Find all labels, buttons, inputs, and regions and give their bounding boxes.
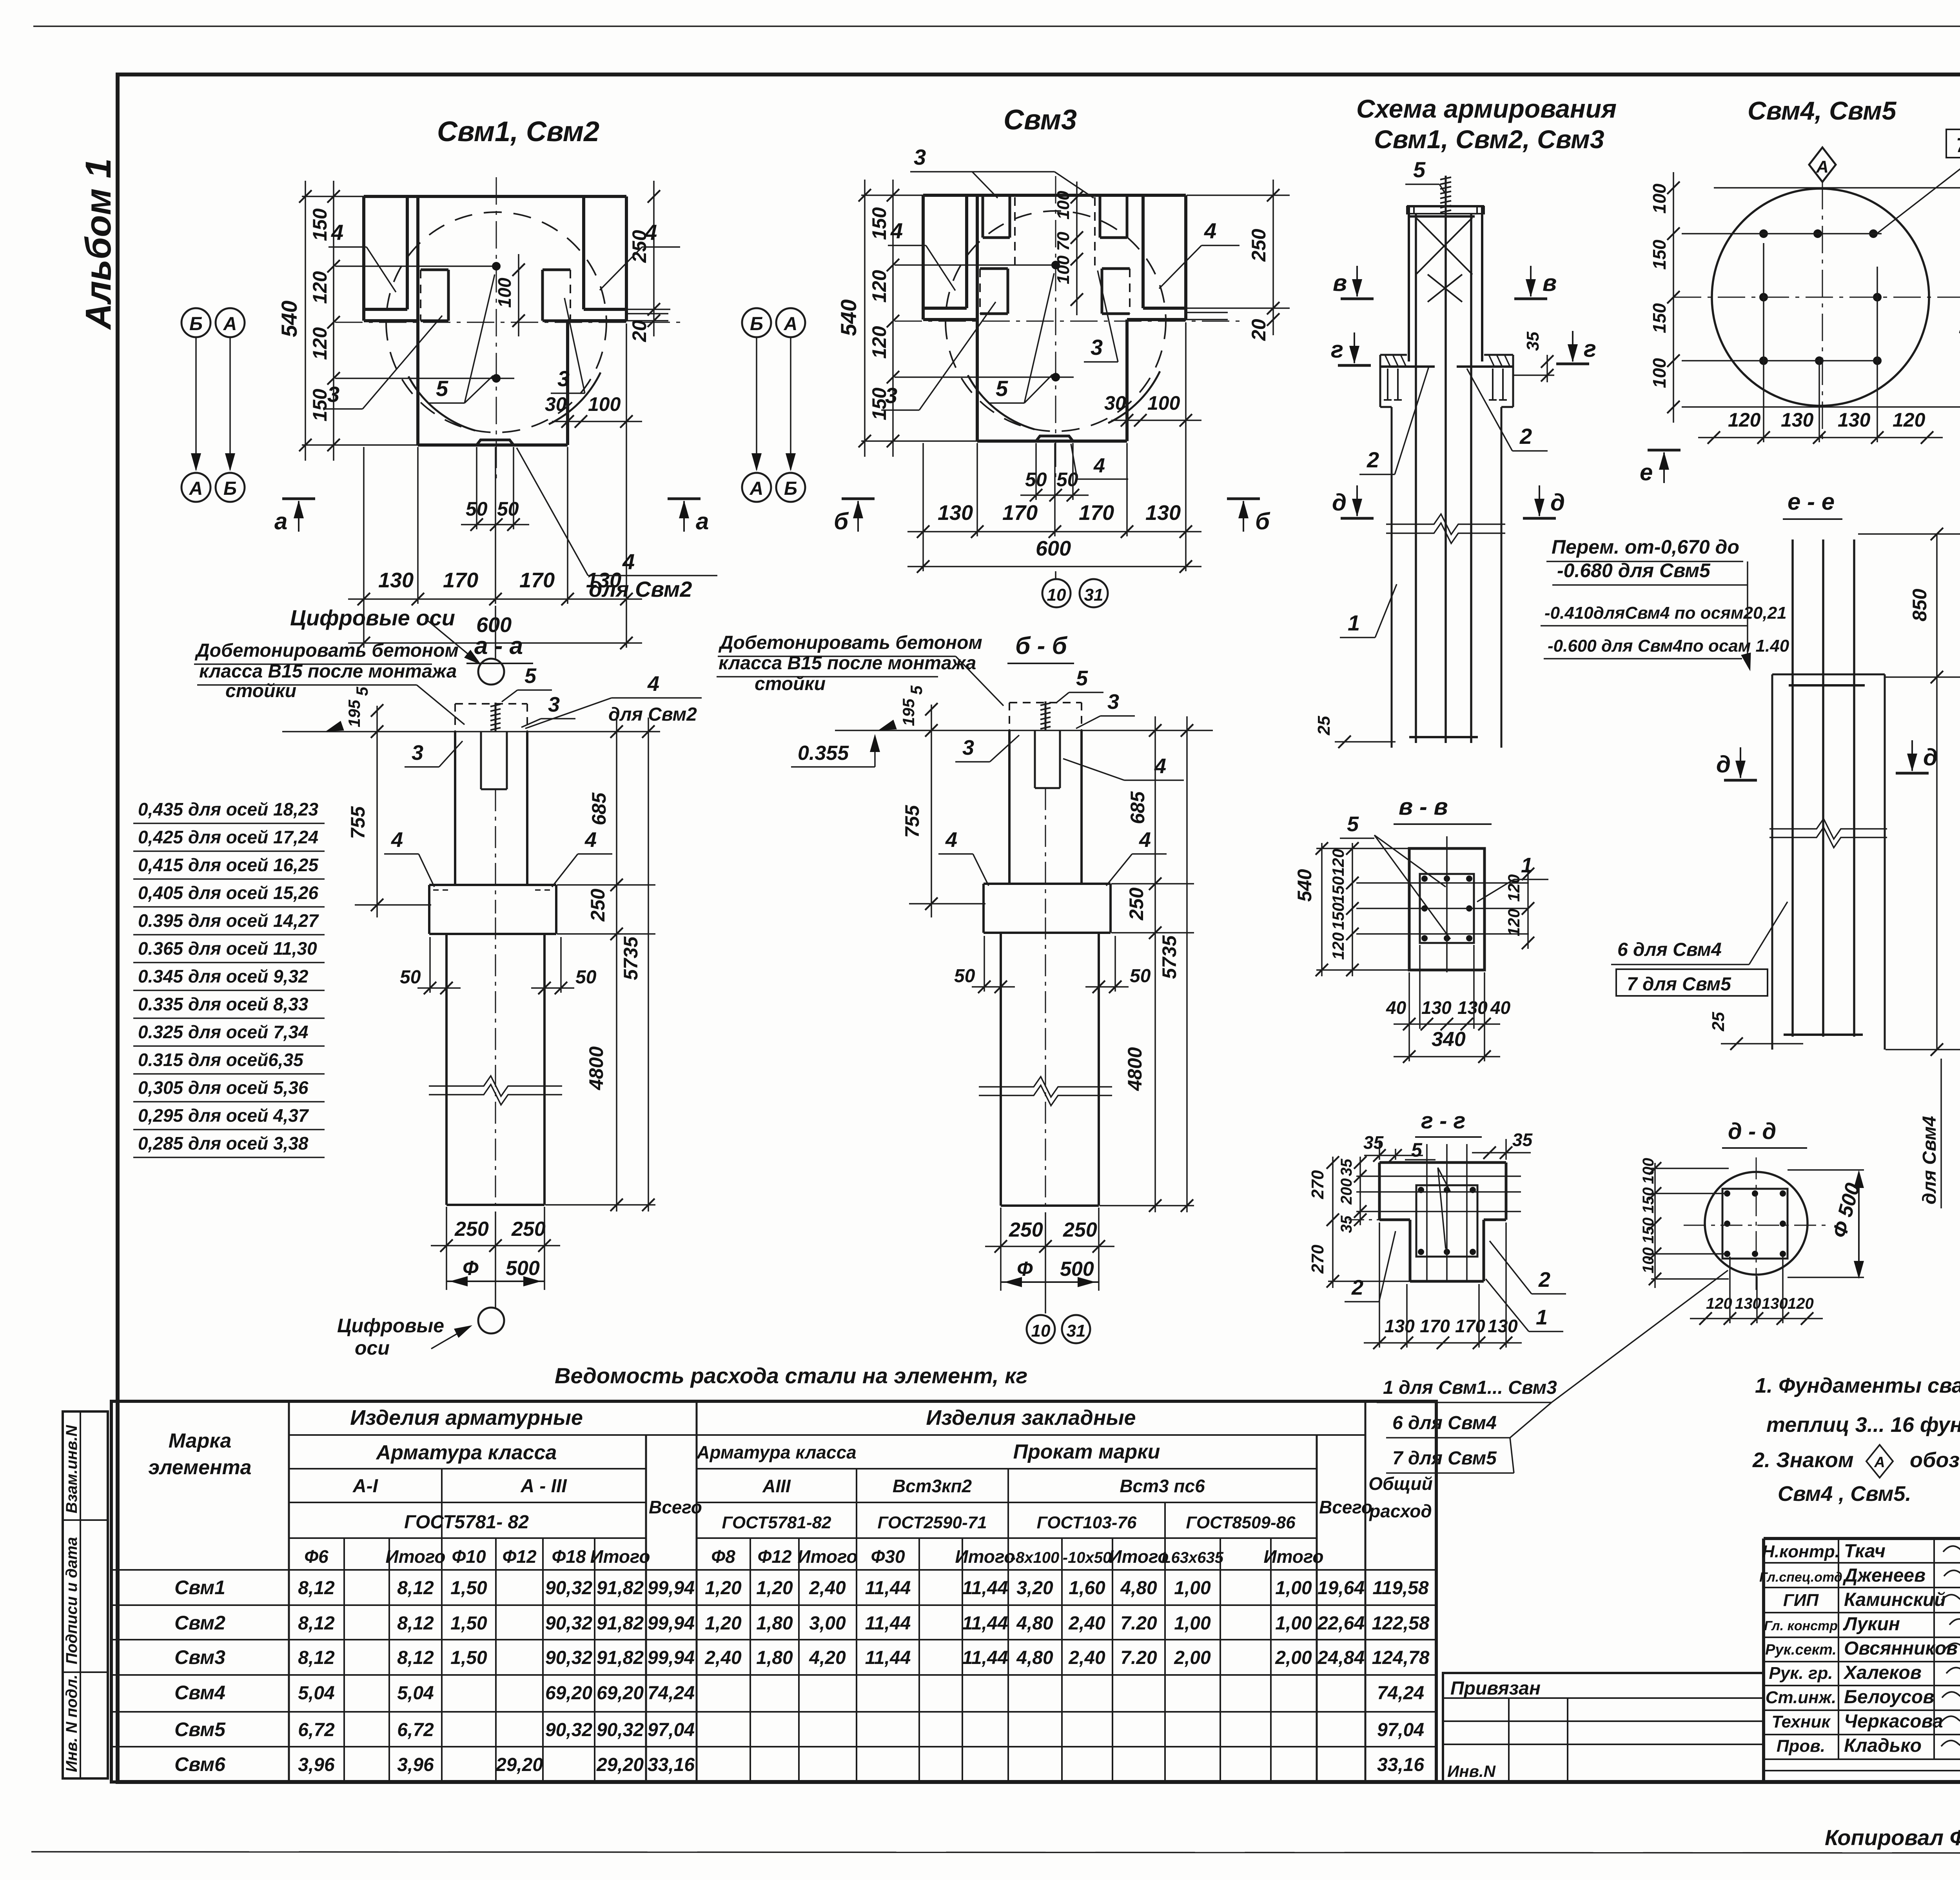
left margin stamp column: [63, 1411, 108, 1778]
plan2 hidden edges dashed: [1014, 197, 1016, 266]
svg-text:обозначена ориентация свайны: обозначена ориентация свайных фундаменто…: [1910, 1448, 1960, 1472]
gg stirrup dots: [1418, 1187, 1424, 1193]
svg-text:1,60: 1,60: [1069, 1578, 1105, 1598]
svg-text:ГОСТ5781- 82: ГОСТ5781- 82: [404, 1512, 529, 1533]
svg-text:Ф: Ф: [1017, 1258, 1033, 1281]
aa dim 50 left: [417, 987, 461, 989]
plan1 dim 50 50: [461, 524, 529, 525]
svg-text:г: г: [1331, 336, 1343, 363]
dd left chain 100 150 150 100: [1654, 1163, 1656, 1288]
svg-text:340: 340: [1432, 1028, 1466, 1051]
svg-text:1,80: 1,80: [756, 1647, 793, 1668]
svg-text:Ф6: Ф6: [304, 1546, 328, 1567]
plan2 axis circles bottom: [742, 473, 771, 502]
svg-text:-0.410дляСвм4 по осям20,21: -0.410дляСвм4 по осям20,21: [1544, 603, 1787, 623]
plan2 pile circle dashed: [946, 211, 1166, 431]
svg-text:Ф8: Ф8: [711, 1546, 735, 1567]
bb axis circles 10 31: [1045, 1212, 1046, 1313]
svg-text:4,20: 4,20: [809, 1647, 846, 1668]
vv right chain 120 120: [1527, 868, 1529, 949]
svg-text:Свм1, Свм2, Свм3: Свм1, Свм2, Свм3: [1374, 125, 1604, 154]
svg-text:7.20: 7.20: [1120, 1613, 1157, 1634]
svg-text:б - б: б - б: [1015, 632, 1067, 659]
svg-text:755: 755: [347, 806, 369, 839]
svg-text:Свм6: Свм6: [174, 1753, 226, 1775]
svg-text:91,82: 91,82: [597, 1578, 644, 1598]
svg-text:130: 130: [378, 569, 414, 592]
svg-text:Дженеев: Дженеев: [1842, 1565, 1926, 1586]
gg axis dash: [1348, 1219, 1384, 1221]
svg-text:Вст3 пс6: Вст3 пс6: [1120, 1476, 1205, 1496]
svg-text:4: 4: [331, 220, 343, 245]
plan1 anchor line upper: [335, 265, 496, 267]
schema collar flange left: [1380, 354, 1407, 356]
svg-text:1,80: 1,80: [756, 1613, 793, 1634]
svg-text:6 для Свм4: 6 для Свм4: [1617, 939, 1722, 960]
plan2 axis circles 10 31: [1055, 571, 1056, 579]
svg-text:50: 50: [400, 967, 421, 988]
ee bottom bar: [1784, 1034, 1863, 1036]
svg-text:Итого: Итого: [1109, 1546, 1169, 1567]
svg-text:1: 1: [1348, 610, 1360, 635]
svg-text:Б: Б: [750, 314, 763, 334]
svg-text:б: б: [834, 508, 849, 534]
svg-text:Общий: Общий: [1368, 1473, 1432, 1494]
svg-text:5: 5: [907, 685, 926, 695]
svg-text:20: 20: [1248, 319, 1270, 341]
svg-text:5: 5: [1347, 812, 1359, 836]
svg-text:50: 50: [954, 966, 975, 986]
bb dim 50 left: [972, 986, 1015, 988]
svg-text:0,415 для осей 16,25: 0,415 для осей 16,25: [138, 855, 319, 875]
svg-text:3,00: 3,00: [809, 1613, 846, 1634]
plan1 dim 540: [305, 181, 306, 461]
plan2 base plate: [1036, 436, 1073, 441]
svg-text:30: 30: [545, 393, 567, 415]
plan1 axis circles bottom: [181, 473, 211, 502]
svg-text:120: 120: [1788, 1295, 1814, 1312]
svg-text:5: 5: [1413, 157, 1426, 182]
svg-text:170: 170: [519, 569, 555, 592]
svg-text:99,94: 99,94: [648, 1613, 695, 1634]
gg outer shape: [1379, 1161, 1506, 1164]
bb anchor bolt zigzag: [1045, 701, 1047, 730]
svg-text:69,20: 69,20: [545, 1683, 592, 1704]
svg-text:250: 250: [1063, 1219, 1097, 1241]
svg-text:100: 100: [1054, 191, 1073, 220]
svg-text:250: 250: [587, 888, 609, 922]
svg-text:250: 250: [1125, 887, 1147, 921]
svg-text:100: 100: [1640, 1158, 1657, 1184]
svg-text:0,425 для осей 17,24: 0,425 для осей 17,24: [138, 827, 318, 847]
svg-text:5735: 5735: [1158, 935, 1180, 979]
schema marker d right: [1523, 517, 1556, 520]
svg-text:500: 500: [1060, 1258, 1094, 1281]
svg-text:е: е: [1640, 459, 1653, 485]
dd bottom chain 120 130 130 120: [1690, 1318, 1823, 1319]
svg-text:д - д: д - д: [1728, 1119, 1776, 1144]
svg-text:0.315 для осей6,35: 0.315 для осей6,35: [138, 1050, 304, 1070]
ee marker d left: [1724, 779, 1757, 782]
svg-text:Всего: Всего: [649, 1497, 702, 1517]
vv left chain 120 150 150 120: [1352, 843, 1353, 976]
svg-text:170: 170: [1079, 501, 1114, 525]
svg-text:для Свм2: для Свм2: [589, 577, 692, 601]
svg-text:Изделия арматурные: Изделия арматурные: [350, 1406, 583, 1430]
plan2 anchor line upper: [895, 264, 1056, 266]
svg-text:124,78: 124,78: [1372, 1647, 1430, 1668]
svg-text:1. Фундаменты свайные Свм1...: 1. Фундаменты свайные Свм1... Свм3 разра…: [1755, 1374, 1960, 1397]
svg-text:8,12: 8,12: [298, 1578, 335, 1598]
svg-text:7 для Свм5: 7 для Свм5: [1627, 974, 1731, 995]
svg-text:170: 170: [1455, 1316, 1485, 1336]
svg-text:22,64: 22,64: [1317, 1613, 1365, 1634]
svg-text:35: 35: [1338, 1215, 1355, 1233]
svg-text:1,50: 1,50: [450, 1613, 487, 1634]
ee rebars: [1791, 539, 1794, 1037]
svg-text:Гл.спец.отд: Гл.спец.отд: [1759, 1570, 1842, 1585]
svg-text:100: 100: [1649, 183, 1670, 214]
svg-text:5: 5: [1076, 667, 1088, 690]
svg-text:Ведомость расхода стали на эле: Ведомость расхода стали на элемент, кг: [555, 1363, 1027, 1388]
svg-text:74,24: 74,24: [648, 1683, 695, 1704]
svg-text:100: 100: [1054, 255, 1073, 284]
svg-text:1,00: 1,00: [1174, 1613, 1211, 1634]
svg-text:г: г: [1584, 336, 1596, 362]
plan2 socket wall lower-right: [1102, 267, 1130, 270]
plan1 outline: [364, 195, 626, 198]
svg-text:91,82: 91,82: [597, 1613, 644, 1634]
svg-text:А: А: [784, 314, 798, 334]
svg-text:25: 25: [1709, 1012, 1728, 1032]
svg-text:122,58: 122,58: [1372, 1613, 1430, 1634]
dd axis cross: [1684, 1225, 1829, 1226]
plan2 axis vertical: [1055, 176, 1056, 481]
svg-text:2,00: 2,00: [1275, 1647, 1312, 1668]
svg-text:4: 4: [584, 828, 597, 852]
bb dashed cap: [1009, 702, 1082, 703]
aa bottom dim 250 250: [431, 1245, 560, 1246]
dd leader to labels: [1552, 1270, 1728, 1402]
svg-text:40: 40: [1386, 997, 1406, 1018]
aa dims left 195 755: [376, 706, 378, 917]
svg-text:3,96: 3,96: [298, 1755, 335, 1775]
svg-text:д: д: [1550, 489, 1565, 516]
svg-text:130: 130: [1421, 997, 1452, 1018]
svg-text:5: 5: [524, 664, 537, 688]
svg-text:Ф 500: Ф 500: [1953, 284, 1960, 346]
vv row lines: [1356, 882, 1529, 884]
svg-text:500: 500: [506, 1257, 540, 1280]
svg-text:4,80: 4,80: [1120, 1578, 1157, 1598]
svg-text:1: 1: [1536, 1306, 1548, 1329]
svg-text:200: 200: [1338, 1178, 1355, 1205]
svg-text:1,00: 1,00: [1275, 1613, 1312, 1634]
gg outer chain 270 270: [1332, 1157, 1334, 1288]
svg-text:А-I: А-I: [352, 1476, 379, 1497]
svg-text:1: 1: [1521, 854, 1533, 877]
gg rebar lines horizontal: [1356, 1175, 1521, 1177]
svg-text:0,295 для осей 4,37: 0,295 для осей 4,37: [138, 1105, 309, 1126]
svg-text:1,20: 1,20: [705, 1578, 742, 1598]
svg-text:класса В15 после монтажа: класса В15 после монтажа: [719, 653, 976, 674]
svg-text:8,12: 8,12: [298, 1613, 335, 1634]
aa dim right 5735: [648, 717, 649, 1212]
svg-text:6,72: 6,72: [298, 1720, 335, 1740]
svg-text:7.20: 7.20: [1120, 1647, 1157, 1668]
svg-text:А: А: [189, 478, 203, 499]
svg-text:Копировал Фомушкина: Копировал Фомушкина: [1825, 1825, 1960, 1850]
svg-text:5735: 5735: [620, 936, 642, 980]
svg-text:3,20: 3,20: [1016, 1578, 1053, 1598]
svg-text:0.395 для осей 14,27: 0.395 для осей 14,27: [138, 910, 319, 931]
plan1 dim chain 130 170 170 130: [348, 598, 642, 600]
svg-text:25: 25: [1314, 716, 1334, 736]
svg-text:250: 250: [1009, 1219, 1043, 1241]
svg-text:270: 270: [1308, 1244, 1327, 1274]
svg-text:Свм4: Свм4: [174, 1682, 225, 1704]
svg-text:97,04: 97,04: [1377, 1720, 1424, 1740]
svg-text:Добетонировать бетоном: Добетонировать бетоном: [718, 632, 982, 653]
svg-text:30: 30: [1104, 392, 1126, 414]
plan2 socket wall lower-left: [980, 267, 1008, 270]
svg-text:4: 4: [644, 220, 657, 245]
svg-text:50: 50: [1130, 966, 1151, 986]
ee top ext line: [1858, 533, 1960, 535]
svg-text:Ткач: Ткач: [1844, 1541, 1886, 1562]
svg-text:Свм1, Свм2: Свм1, Свм2: [437, 116, 599, 147]
svm45 top bottom tangent lines: [1714, 187, 1960, 189]
svg-text:2,40: 2,40: [809, 1578, 846, 1598]
gg stirrup rect: [1416, 1185, 1477, 1257]
svg-text:3: 3: [548, 693, 560, 716]
svg-text:150: 150: [1329, 903, 1347, 930]
title block signatures squiggles: [1943, 1543, 1960, 1552]
plan2 dim 600: [907, 566, 1201, 567]
schema marker v right: [1514, 298, 1547, 300]
svg-text:0.325 для осей 7,34: 0.325 для осей 7,34: [138, 1022, 308, 1042]
svg-text:130: 130: [1457, 997, 1488, 1018]
svg-text:1,50: 1,50: [450, 1647, 487, 1668]
svg-text:ГОСТ2590-71: ГОСТ2590-71: [877, 1513, 987, 1532]
svg-text:3: 3: [557, 366, 570, 391]
bb pocket centerline: [1045, 788, 1046, 914]
schema shaft: [1391, 407, 1393, 748]
schema collar flange right: [1484, 354, 1513, 356]
plan1 axis circle arrows: [195, 338, 197, 470]
plan2 dim 250 20 right: [1272, 180, 1274, 335]
svg-text:120: 120: [1504, 874, 1523, 902]
svg-text:Ст.инж.: Ст.инж.: [1766, 1688, 1837, 1707]
bb dims left 195 755: [931, 705, 932, 917]
svg-text:33,16: 33,16: [648, 1755, 695, 1775]
svg-text:Свм5: Свм5: [174, 1718, 226, 1740]
schema marker g left: [1338, 364, 1371, 367]
svg-text:4: 4: [391, 828, 403, 852]
plan2 dim 30 100: [1111, 420, 1201, 421]
svg-text:5: 5: [436, 376, 448, 401]
plan1 base plate: [477, 440, 514, 445]
aa pocket centerline: [495, 789, 496, 914]
svg-text:2: 2: [1519, 424, 1532, 449]
svg-text:130: 130: [1488, 1316, 1518, 1336]
plan2 pile circle solid arc: [968, 375, 1034, 429]
svg-text:а: а: [696, 508, 709, 534]
schema rebars: [1415, 214, 1417, 743]
svg-text:А: А: [750, 478, 764, 499]
svg-text:270: 270: [1308, 1170, 1327, 1199]
svg-text:ГИП: ГИП: [1783, 1591, 1819, 1610]
schema step outline: [1379, 367, 1381, 407]
svg-text:1,20: 1,20: [756, 1578, 793, 1598]
svg-text:120: 120: [1728, 409, 1761, 431]
aa anchor bolt zigzag: [495, 703, 497, 732]
svg-text:1,00: 1,00: [1275, 1578, 1312, 1598]
svg-text:Черкасова: Черкасова: [1844, 1711, 1943, 1732]
sheet top margin line: [33, 25, 1960, 27]
gg dim 35 right top: [1472, 1152, 1531, 1153]
svg-text:Взам.инв.N: Взам.инв.N: [63, 1425, 80, 1513]
ee break: [1769, 819, 1887, 839]
plan1 anchor dot lower: [492, 374, 501, 383]
svg-text:8,12: 8,12: [397, 1647, 434, 1668]
svg-text:Прокат марки: Прокат марки: [1013, 1440, 1160, 1463]
svg-text:класса В15 после монтажа: класса В15 после монтажа: [199, 661, 457, 682]
svg-text:91,82: 91,82: [597, 1647, 644, 1668]
svm45 marker e left: [1648, 449, 1681, 452]
svg-text:Б: Б: [189, 314, 203, 334]
svg-text:А - III: А - III: [520, 1476, 567, 1497]
svg-text:50: 50: [497, 498, 519, 520]
svg-text:Итого: Итого: [798, 1546, 858, 1567]
svg-text:2. Знаком: 2. Знаком: [1752, 1448, 1854, 1472]
plan1 dim 250 20 right: [653, 181, 655, 336]
svg-text:8,12: 8,12: [397, 1578, 434, 1598]
svg-text:4: 4: [1139, 828, 1151, 852]
svg-text:Ф30: Ф30: [871, 1546, 905, 1567]
svg-text:20: 20: [628, 320, 650, 342]
gg left chain 35 200 35: [1359, 1157, 1361, 1225]
svg-text:Ф18: Ф18: [552, 1546, 586, 1567]
plan1 axis vertical: [496, 177, 497, 482]
svg-text:0.345 для осей 9,32: 0.345 для осей 9,32: [138, 966, 309, 986]
svg-text:Гл. констр: Гл. констр: [1764, 1618, 1838, 1633]
svg-text:4800: 4800: [1124, 1047, 1146, 1091]
plan2 right tab lines: [1186, 312, 1228, 313]
svg-text:1 для Свм1... Свм3: 1 для Свм1... Свм3: [1383, 1377, 1557, 1398]
svg-text:3: 3: [885, 383, 897, 408]
svg-text:д: д: [1923, 744, 1938, 770]
svg-text:5,04: 5,04: [298, 1683, 334, 1704]
svg-text:-8х100: -8х100: [1011, 1549, 1060, 1566]
gg bottom dims 130 170 170 130: [1364, 1342, 1522, 1344]
svg-text:8,12: 8,12: [397, 1613, 434, 1634]
svg-text:элемента: элемента: [148, 1456, 251, 1479]
svg-text:Привязан: Привязан: [1450, 1678, 1541, 1699]
aa dims right 685 250 4800: [616, 717, 617, 1212]
svg-text:7 для Свм5: 7 для Свм5: [1956, 134, 1960, 157]
svg-text:Свм1: Свм1: [174, 1577, 225, 1598]
vv stirrup dots: [1421, 876, 1428, 882]
svg-text:755: 755: [901, 805, 923, 838]
svg-text:100: 100: [1649, 358, 1670, 388]
svg-text:150: 150: [309, 208, 331, 241]
aa bolt pocket: [480, 732, 482, 789]
svg-text:г - г: г - г: [1421, 1108, 1465, 1133]
svg-text:2,40: 2,40: [1068, 1647, 1105, 1668]
plan2 dim chain 150 120 120 150: [892, 180, 894, 457]
svg-text:Свм3: Свм3: [1004, 104, 1077, 136]
vv stirrup rect: [1420, 874, 1474, 943]
plan1 right tab lines: [626, 313, 668, 314]
plan2 socket wall top-right: [1099, 195, 1102, 238]
svg-text:Свм3: Свм3: [174, 1646, 225, 1668]
svg-text:ГОСТ5781-82: ГОСТ5781-82: [722, 1513, 831, 1532]
svg-text:4: 4: [622, 549, 635, 574]
plan1 pile circle dashed: [386, 212, 606, 432]
svg-text:0,285 для осей 3,38: 0,285 для осей 3,38: [138, 1133, 309, 1153]
plan2 outline: [923, 194, 1186, 197]
bb dims right 685 250 4800: [1154, 716, 1156, 1212]
aa head outline: [454, 732, 456, 885]
svg-text:Схема армирования: Схема армирования: [1356, 94, 1617, 123]
ee bottom ticks: [1721, 1043, 1803, 1044]
svg-text:0.335 для осей 8,33: 0.335 для осей 8,33: [138, 994, 309, 1014]
svg-text:L63х635: L63х635: [1161, 1549, 1224, 1566]
svg-text:Свм4 , Свм5.: Свм4 , Свм5.: [1778, 1482, 1911, 1506]
svm45 rebar dots: [1759, 229, 1768, 238]
svm45 circle: [1712, 189, 1929, 406]
svg-text:35: 35: [1523, 332, 1543, 351]
plan1 pile circle solid arcs: [408, 376, 475, 430]
schema marker v left: [1341, 298, 1374, 300]
svg-text:б: б: [1255, 508, 1270, 534]
svg-text:3: 3: [327, 382, 339, 407]
svg-text:Рук.сект.: Рук.сект.: [1765, 1642, 1837, 1658]
svg-text:31: 31: [1084, 585, 1103, 605]
schema pile cap: [1407, 205, 1484, 207]
svg-text:100: 100: [494, 278, 515, 308]
dd stirrup dots: [1724, 1190, 1730, 1197]
bb collar: [984, 883, 1111, 885]
plan1 socket wall left: [421, 269, 448, 271]
bb bottom dim 250 250: [985, 1246, 1114, 1247]
ee marker d right: [1896, 772, 1929, 775]
svg-text:для Свм2: для Свм2: [608, 704, 697, 725]
svm45 label 7 dlya svm5 box: [1946, 129, 1960, 158]
schema bottom tick: [1335, 741, 1396, 743]
bb dim 50 right: [1085, 986, 1129, 988]
plan2 dims 100 70 100 center: [1076, 182, 1078, 315]
svg-text:4800: 4800: [585, 1046, 607, 1090]
svg-text:ГОСТ103-76: ГОСТ103-76: [1037, 1513, 1137, 1532]
plan2 dim chain 130 170 170 130: [907, 531, 1201, 532]
svg-text:для Свм4: для Свм4: [1919, 1116, 1940, 1204]
svg-text:120: 120: [309, 327, 331, 360]
svg-text:120: 120: [1329, 932, 1347, 960]
plan2 anchor dot upper: [1051, 261, 1060, 269]
svg-text:24,84: 24,84: [1317, 1647, 1365, 1668]
svg-text:Инв. N подл.: Инв. N подл.: [63, 1675, 80, 1772]
svg-text:35: 35: [1512, 1130, 1533, 1150]
svg-text:2,40: 2,40: [704, 1647, 742, 1668]
svg-text:170: 170: [1002, 501, 1038, 525]
schema marker d left: [1341, 517, 1374, 520]
bb break: [979, 1077, 1112, 1097]
plan1 dim 30 100: [552, 421, 642, 422]
svg-text:0.365 для осей 11,30: 0.365 для осей 11,30: [138, 938, 317, 959]
svg-text:в: в: [1333, 270, 1347, 296]
